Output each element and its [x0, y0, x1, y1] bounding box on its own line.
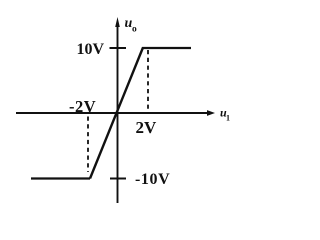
svg-text:o: o [132, 25, 137, 35]
svg-text:1: 1 [226, 114, 230, 123]
svg-text:-10V: -10V [135, 171, 170, 188]
svg-text:10V: 10V [76, 41, 104, 58]
svg-text:-2V: -2V [69, 97, 96, 116]
svg-text:2V: 2V [136, 118, 158, 137]
